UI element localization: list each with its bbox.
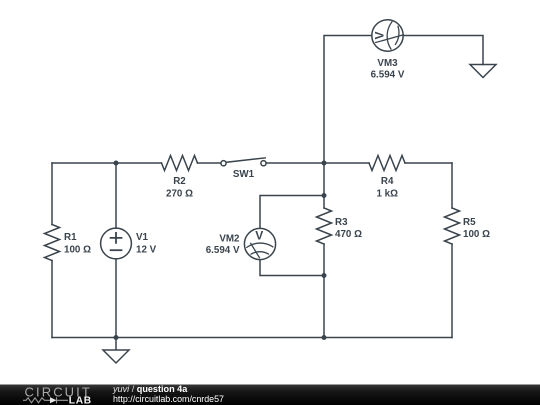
resistor R1 <box>45 225 60 261</box>
wire right rail upper <box>451 163 453 208</box>
svg-text:12 V: 12 V <box>136 245 157 256</box>
switch SW1 arm <box>226 158 265 162</box>
svg-text:100 Ω: 100 Ω <box>64 245 91 256</box>
svg-text:http://circuitlab.com/cnrde57: http://circuitlab.com/cnrde57 <box>113 394 224 404</box>
node junction VM2 bottom <box>322 273 327 278</box>
V1 plus sign <box>111 233 122 243</box>
voltmeter VM3 internals (rotated meter) <box>373 22 403 49</box>
V1 minus sign <box>111 249 122 251</box>
voltmeter VM2 circle <box>244 228 275 259</box>
resistor R4 <box>369 156 405 171</box>
voltage source V1 circle <box>101 228 132 259</box>
svg-text:R2: R2 <box>173 176 186 187</box>
svg-text:yuvi / question 4a: yuvi / question 4a <box>112 384 188 394</box>
wire right rail lower <box>451 244 453 338</box>
wire VM3 to top-right corner <box>403 36 483 65</box>
voltmeter VM2 internals <box>247 229 273 258</box>
svg-text:R5: R5 <box>463 217 476 228</box>
wire VM2 top branch <box>260 196 324 229</box>
svg-text:V: V <box>255 229 263 243</box>
node junction V1 top <box>114 161 119 166</box>
wire R2 to SW1 <box>198 162 221 164</box>
switch SW1 left contact <box>221 161 226 166</box>
voltmeter VM3 circle <box>372 20 403 51</box>
svg-text:6.594 V: 6.594 V <box>371 70 405 81</box>
wire SW1 to R4 <box>266 162 369 164</box>
ground bottom <box>103 338 129 364</box>
svg-text:V: V <box>373 31 387 39</box>
wire VM2 bottom branch <box>260 260 324 276</box>
svg-text:1 kΩ: 1 kΩ <box>376 188 398 199</box>
node junction middle top <box>322 161 327 166</box>
svg-text:R3: R3 <box>335 217 348 228</box>
svg-text:SW1: SW1 <box>233 169 255 180</box>
svg-text:LAB: LAB <box>69 396 92 405</box>
svg-text:6.594 V: 6.594 V <box>206 245 240 256</box>
svg-text:470 Ω: 470 Ω <box>335 229 362 240</box>
wire left rail lower <box>51 261 53 338</box>
svg-text:100 Ω: 100 Ω <box>463 229 490 240</box>
wire middle column mid <box>323 163 325 208</box>
wire V1 top stub <box>115 163 117 228</box>
resistor R5 <box>445 208 460 244</box>
wire R4 to right rail <box>405 162 452 164</box>
wire middle column top (to VM3 corner) <box>324 36 372 164</box>
node junction middle bottom <box>322 335 327 340</box>
resistor R2 <box>162 156 198 171</box>
svg-text:V1: V1 <box>136 232 149 243</box>
node junction VM2 top <box>322 193 327 198</box>
svg-text:R1: R1 <box>64 232 77 243</box>
svg-text:VM2: VM2 <box>219 234 240 245</box>
svg-text:270 Ω: 270 Ω <box>166 188 193 199</box>
switch SW1 right contact <box>261 161 266 166</box>
wire V1 bottom stub <box>115 259 117 338</box>
ground top-right <box>470 65 496 78</box>
wire top-left rail <box>52 162 162 164</box>
wire bottom rail <box>52 337 452 339</box>
CircuitLab logo squiggle and diode <box>23 397 68 403</box>
wire left rail upper <box>51 163 53 225</box>
node junction V1 bottom <box>114 335 119 340</box>
svg-text:VM3: VM3 <box>377 58 398 69</box>
resistor R3 <box>317 208 332 244</box>
wire middle column lower <box>323 244 325 338</box>
svg-text:R4: R4 <box>381 176 394 187</box>
